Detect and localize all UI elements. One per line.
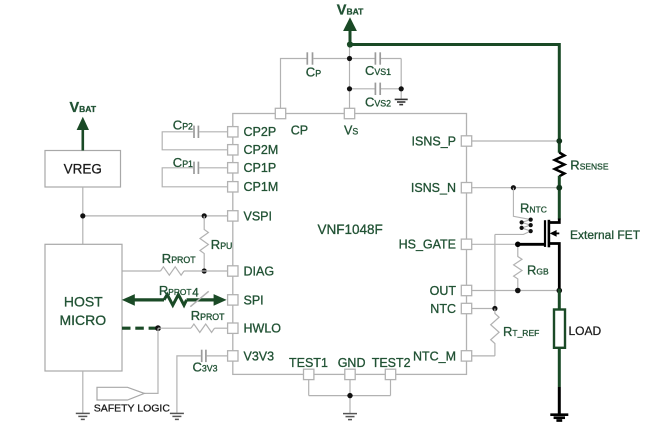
node HWLO / safety logic junction [155, 325, 161, 331]
pin VSPI [228, 211, 238, 221]
svg-text:HS_GATE: HS_GATE [399, 238, 456, 252]
label pin ISNS_N [411, 181, 456, 195]
label bus width 4 [192, 287, 199, 299]
capacitor C3V3 [202, 350, 206, 362]
wire OUT node to LOAD [558, 289, 561, 310]
label resistor RGB [527, 262, 549, 277]
svg-text:GND: GND [338, 356, 366, 370]
power symbol VBAT left arrow [77, 117, 89, 151]
label thermistor RNTC [520, 200, 547, 215]
node CVS2 junction [347, 56, 404, 92]
pin ISNS_N [461, 183, 471, 193]
ground (C3V3) [170, 413, 184, 419]
IC U1 VNF1048F body [233, 114, 467, 375]
wire HOST MICRO ground [82, 371, 84, 413]
ground (LOAD) [550, 415, 568, 421]
wire DIAG to host micro [122, 270, 161, 272]
power net VBAT top label [337, 3, 364, 19]
pin OUT [461, 285, 471, 295]
svg-text:SAFETY LOGIC: SAFETY LOGIC [94, 402, 171, 414]
wire C3V3 to ground [177, 356, 201, 413]
label pin CP (top) [291, 123, 308, 137]
wire gate thick segment [517, 243, 545, 246]
svg-text:CP1P: CP1P [244, 161, 277, 175]
label resistor RPROT (DIAG) [162, 251, 196, 266]
label IC name VNF1048F [318, 222, 383, 237]
label pin CP2P [244, 125, 277, 139]
label resistor RSENSE [570, 157, 609, 172]
label pin DIAG [244, 264, 275, 278]
wire HS_GATE to gate node [472, 243, 517, 245]
power symbol VBAT top arrow [343, 17, 357, 46]
label External FET [570, 228, 641, 242]
label pin HWLO [244, 322, 282, 336]
wire RPROT to HWLO pin [215, 327, 228, 329]
transistor Q1 source lead down to OUT [549, 244, 559, 292]
node gate junction [515, 242, 521, 248]
capacitor CVS2 [375, 83, 380, 95]
label SAFETY LOGIC [94, 402, 171, 414]
pin NTC [461, 303, 471, 313]
capacitor CP [307, 52, 312, 64]
svg-text:VSPI: VSPI [244, 209, 273, 223]
pin GND [345, 369, 355, 379]
bus width slash /4 [190, 291, 208, 306]
label resistor RPROT (SPI) [159, 283, 192, 298]
pin TEST1 [304, 369, 314, 379]
capacitor CP1 loop wire [162, 168, 227, 187]
svg-text:VNF1048F: VNF1048F [318, 222, 383, 237]
svg-text:External FET: External FET [570, 228, 641, 242]
svg-text:MICRO: MICRO [59, 312, 106, 328]
label pin NTC_M [413, 349, 456, 363]
thermistor RNTC vertex dots [520, 218, 533, 234]
label capacitor CP1 [173, 155, 193, 170]
svg-text:NTC_M: NTC_M [413, 349, 456, 363]
wire NTC to node [472, 308, 495, 310]
label resistor RPU [211, 237, 233, 252]
wire RNTC drop to NTC node [494, 234, 496, 308]
node ISNS_P junction [556, 138, 562, 144]
svg-text:DIAG: DIAG [244, 264, 275, 278]
label capacitor CP2 [173, 117, 193, 132]
label capacitor C3V3 [193, 360, 218, 375]
transistor Q1 body arrow [550, 230, 560, 237]
wire VREG output down [82, 187, 84, 216]
svg-text:TEST1: TEST1 [289, 356, 328, 370]
ground (CVS2) [395, 99, 408, 104]
wire LOAD to ground [558, 348, 561, 387]
svg-text:CP1M: CP1M [244, 180, 279, 194]
resistor RPROT (SPI) thick zigzag [164, 295, 187, 306]
bus SPI thick bidirectional arrow shaft [134, 298, 215, 301]
svg-text:HOST: HOST [64, 294, 103, 310]
svg-text:V3V3: V3V3 [244, 349, 275, 363]
label pin OUT [430, 284, 457, 298]
ground (HOST MICRO) [76, 413, 90, 419]
pin ISNS_P [461, 136, 471, 146]
node RGB bottom on OUT wire [515, 288, 521, 294]
label capacitor CVS2 [365, 95, 391, 110]
ground (GND pin) [343, 414, 357, 420]
label capacitor CP [306, 64, 321, 79]
pin CP (top) [275, 108, 285, 118]
capacitor CVS2 wire [350, 88, 402, 90]
svg-text:ISNS_N: ISNS_N [411, 181, 456, 195]
node RPU top junction [202, 213, 207, 218]
svg-text:OUT: OUT [430, 284, 457, 298]
node OUT meets source line [557, 288, 563, 294]
svg-text:TEST2: TEST2 [372, 356, 411, 370]
node VBAT corner [347, 41, 353, 47]
bus SPI right arrowhead [214, 294, 227, 306]
pin SPI [228, 295, 238, 305]
resistor RT_REF [491, 309, 499, 356]
wire ISNS_P to RSENSE [472, 140, 558, 142]
wire GND down [349, 380, 351, 396]
wire capacitor CP to VS node [313, 58, 349, 60]
HOST MICRO box [45, 244, 122, 371]
pin CP1M [228, 182, 238, 192]
wire RSENSE to FET drain [558, 176, 561, 220]
label pin TEST1 [289, 356, 328, 370]
SAFETY LOGIC tag [97, 387, 144, 400]
svg-text:CP2P: CP2P [244, 125, 277, 139]
capacitor CP1 [194, 162, 198, 174]
label pin CP1P [244, 161, 277, 175]
pin NTC_M [461, 351, 471, 361]
label pin VSPI [244, 209, 273, 223]
capacitor CP2 [194, 126, 198, 138]
resistor RPROT (DIAG) [161, 267, 184, 275]
svg-text:CP: CP [291, 123, 308, 137]
wire into HOST MICRO top [82, 216, 84, 244]
pin V3V3 [228, 351, 238, 361]
svg-text:ISNS_P: ISNS_P [412, 134, 456, 148]
node RPU bottom / DIAG junction [202, 268, 207, 273]
wire VSPI supply bus [83, 215, 227, 217]
label pin V3V3 [244, 349, 275, 363]
pin DIAG [228, 266, 238, 276]
label pin VS (top) [344, 123, 358, 137]
VREG box [45, 151, 121, 188]
wire ISNS_N [472, 187, 558, 189]
transistor Q1 channel bar [548, 220, 551, 248]
resistor RPROT (HWLO) [191, 324, 214, 332]
label resistor RT_REF [503, 324, 539, 339]
label pin NTC [430, 302, 456, 316]
pin CP2M [228, 145, 238, 155]
svg-text:VS: VS [344, 123, 358, 137]
label pin CP1M [244, 180, 279, 194]
label VREG [64, 162, 102, 177]
svg-text:CP2M: CP2M [244, 143, 279, 157]
wire CVS1/CVS2 right leg to ground [400, 59, 402, 99]
label LOAD [569, 324, 602, 338]
pin VS (top) [344, 108, 354, 118]
label pin TEST2 [372, 356, 411, 370]
label pin HS_GATE [399, 238, 456, 252]
label pin GND [338, 356, 366, 370]
node NTC junction [492, 306, 497, 311]
thermistor RNTC [495, 188, 531, 235]
wire safety logic drop [144, 328, 158, 393]
pin CP1P [228, 163, 238, 173]
wire VBAT thick feed to RSENSE [350, 45, 559, 153]
wire NTC_M pin to RT_REF [472, 355, 495, 357]
wire HWLO dashed segment from host [122, 327, 157, 330]
node ISNS_N junction [556, 185, 562, 191]
capacitor CP2 loop wire [162, 132, 227, 150]
capacitor CVS1 [375, 52, 380, 64]
node GND bus junction [347, 393, 352, 398]
wire CP pin to capacitor CP [281, 59, 307, 114]
node RNTC top on ISNS_N [511, 185, 516, 190]
wire LOAD ground black segment [558, 387, 561, 414]
capacitor CVS1 wire [350, 58, 402, 60]
wire TEST1 down [308, 380, 310, 396]
transistor Q1 gate bar [544, 220, 546, 247]
load LD1 [554, 310, 565, 348]
label pin ISNS_P [412, 134, 456, 148]
label pin SPI [244, 293, 264, 307]
svg-text:NTC: NTC [430, 302, 456, 316]
wire VS pin up to VBAT node [349, 45, 351, 108]
wire TEST2 down [390, 380, 392, 396]
wire RPROT to DIAG pin [184, 270, 227, 272]
label resistor RPROT (HWLO) [191, 308, 225, 323]
svg-text:4: 4 [192, 287, 199, 299]
svg-text:VREG: VREG [64, 162, 102, 177]
wire OUT to FET source [472, 290, 558, 292]
pin CP2P [228, 127, 238, 137]
node VREG junction [80, 213, 85, 218]
svg-text:HWLO: HWLO [244, 322, 282, 336]
label HOST MICRO [59, 294, 106, 328]
svg-text:LOAD: LOAD [569, 324, 602, 338]
pin TEST2 [385, 369, 395, 379]
wire V3V3 pin to capacitor C3V3 [207, 355, 228, 357]
wire TEST ground bus [309, 396, 391, 413]
wire HWLO to resistor [158, 327, 191, 329]
label pin CP2M [244, 143, 279, 157]
label capacitor CVS1 [365, 63, 391, 78]
transistor Q1 external FET drain lead [549, 219, 559, 223]
resistor RGB [514, 244, 522, 290]
pin HWLO [228, 323, 238, 333]
svg-text:SPI: SPI [244, 293, 264, 307]
pin HS_GATE [461, 239, 471, 249]
resistor RPU [200, 216, 208, 271]
resistor RSENSE [555, 153, 565, 177]
bus SPI left arrowhead [122, 294, 135, 306]
power net VBAT left label [70, 100, 97, 116]
